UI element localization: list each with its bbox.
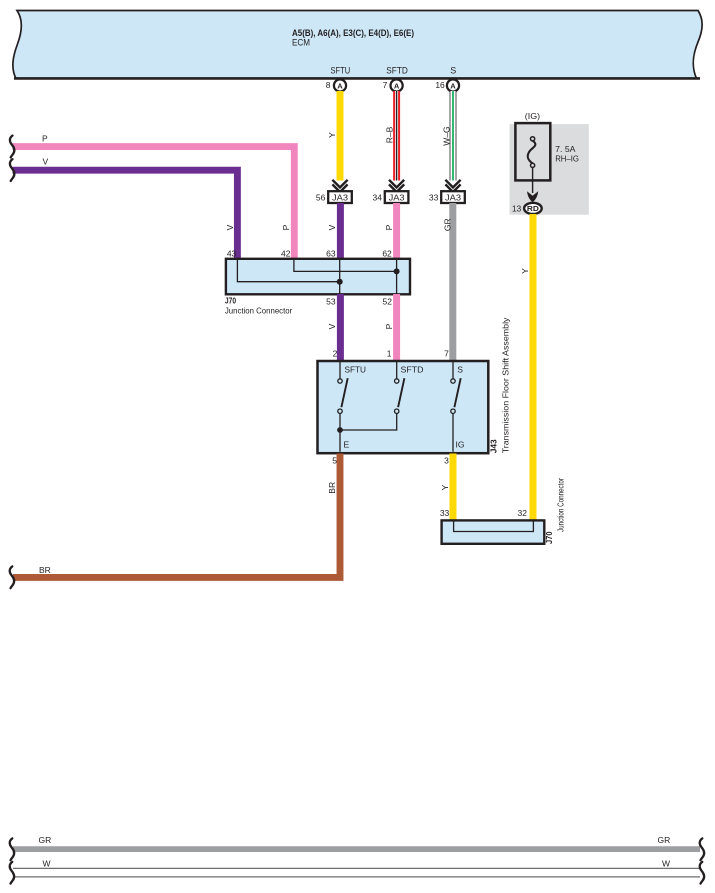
J70 internal line 62-52 [396, 260, 398, 294]
fuse RH-IG block [510, 111, 589, 215]
svg-text:3: 3 [444, 456, 449, 466]
svg-text:GR: GR [442, 218, 452, 231]
break squiggle GR left [10, 838, 14, 860]
arrow into JA3 (33) [445, 180, 460, 192]
svg-text:JA3: JA3 [332, 192, 348, 202]
connector JA3 pin 34 [373, 191, 409, 203]
wire Y from shift assembly IG to J70 pin 33 [440, 454, 453, 522]
J70 internal bus 43 to 53 [237, 260, 342, 285]
svg-text:Transmission Floor Shift Assem: Transmission Floor Shift Assembly [500, 317, 510, 454]
svg-text:P: P [281, 224, 291, 230]
svg-text:33: 33 [429, 192, 439, 202]
svg-text:V: V [43, 156, 49, 166]
svg-text:8: 8 [326, 80, 331, 90]
arrow into JA3 (56) [332, 180, 347, 192]
break squiggle W left [10, 862, 14, 884]
svg-text:42: 42 [281, 248, 291, 258]
svg-text:A5(B), A6(A), E3(C), E4(D), E6: A5(B), A6(A), E3(C), E4(D), E6(E) [292, 28, 414, 38]
wire GR bottom bus [13, 835, 700, 849]
wire V from J70 53 to shift assembly pin 2 [327, 294, 341, 362]
svg-text:32: 32 [518, 508, 528, 518]
wire P from JA3 34 to J70 pin 62 [384, 203, 397, 260]
svg-text:A: A [337, 81, 343, 90]
svg-text:S: S [457, 365, 463, 375]
svg-text:SFTD: SFTD [386, 66, 408, 76]
pin 7 connector A (SFTD) [383, 79, 403, 91]
switch SFTU [338, 362, 348, 413]
svg-text:1: 1 [387, 349, 392, 359]
wire Y from ECM SFTU to JA3 [327, 91, 340, 181]
wire R-B from ECM SFTD to JA3 [384, 91, 396, 181]
wire BR from shift assembly E to left break [13, 454, 340, 578]
wire Y from RD to J70 pin 32 [520, 214, 533, 522]
svg-text:IG: IG [456, 440, 465, 450]
svg-text:A: A [450, 81, 456, 90]
svg-text:JA3: JA3 [389, 192, 405, 202]
svg-text:E: E [344, 440, 350, 450]
connector RD pin 13 [512, 203, 542, 214]
svg-text:P: P [42, 134, 48, 144]
svg-text:V: V [327, 224, 337, 230]
svg-text:BR: BR [327, 482, 337, 494]
J70 label [225, 296, 392, 316]
svg-text:RH–IG: RH–IG [555, 153, 579, 163]
svg-text:62: 62 [382, 248, 392, 258]
svg-text:13: 13 [512, 204, 522, 214]
svg-text:GR: GR [658, 835, 671, 845]
J70 lower internal bus [454, 521, 534, 532]
svg-text:56: 56 [316, 192, 326, 202]
transmission floor shift assembly J43 box [318, 349, 489, 454]
svg-text:52: 52 [383, 297, 393, 307]
junction connector J70 (upper) [226, 248, 410, 294]
svg-text:V: V [225, 224, 235, 230]
svg-text:7: 7 [383, 80, 388, 90]
J70 lower label [544, 478, 566, 544]
svg-text:Junction Connector: Junction Connector [225, 306, 292, 316]
break squiggle BR wire [10, 566, 14, 588]
svg-text:34: 34 [373, 192, 383, 202]
svg-text:53: 53 [326, 297, 336, 307]
svg-text:RD: RD [527, 204, 540, 213]
J70 internal line 63-53 [339, 260, 341, 294]
svg-text:16: 16 [435, 80, 445, 90]
J70 internal bus 42 to 52 [294, 260, 400, 275]
wire GR from JA3 33 to shift assembly pin 7 [442, 203, 453, 362]
wire W-G from ECM S to JA3 [442, 91, 453, 181]
svg-text:J70: J70 [225, 296, 236, 306]
svg-text:5: 5 [332, 456, 337, 466]
svg-text:J43: J43 [489, 439, 499, 453]
svg-text:43: 43 [227, 248, 237, 258]
svg-text:63: 63 [326, 248, 336, 258]
arrow into JA3 (34) [389, 180, 404, 192]
svg-text:V: V [327, 323, 337, 329]
svg-text:Junction Connector: Junction Connector [556, 478, 566, 532]
svg-text:BR: BR [39, 565, 51, 575]
wire P from left break to J70 pin 42 [13, 134, 295, 260]
svg-text:SFTD: SFTD [401, 365, 424, 375]
svg-text:R–B: R–B [384, 126, 394, 143]
svg-text:7: 7 [444, 349, 449, 359]
pin 16 connector A (S) [435, 79, 459, 91]
svg-text:A: A [394, 81, 400, 90]
svg-text:SFTU: SFTU [331, 66, 351, 76]
svg-text:JA3: JA3 [445, 192, 461, 202]
wire P from J70 52 to shift assembly pin 1 [384, 294, 396, 362]
svg-text:J70: J70 [544, 531, 554, 544]
svg-text:S: S [450, 66, 456, 76]
svg-text:Y: Y [520, 268, 530, 274]
svg-text:33: 33 [440, 508, 450, 518]
break squiggle W right [700, 862, 704, 884]
internal wiring SFTU/SFTD to E [337, 413, 397, 451]
fuse output lead and arrow [527, 168, 538, 203]
connector JA3 pin 33 [429, 191, 465, 203]
svg-text:SFTU: SFTU [345, 365, 367, 375]
internal wiring S to IG [453, 413, 464, 451]
break squiggle P wire [10, 136, 14, 158]
svg-text:ECM: ECM [292, 38, 310, 48]
svg-text:W: W [43, 858, 51, 868]
fuse element 7.5A RH-IG [528, 137, 579, 168]
switch S [451, 362, 461, 413]
J43 label [489, 317, 511, 454]
svg-text:P: P [384, 323, 394, 329]
connector JA3 pin 56 [316, 191, 352, 203]
junction connector J70 (lower) [440, 508, 544, 544]
switch SFTD [395, 362, 405, 413]
svg-text:Y: Y [327, 132, 337, 138]
wire V from left break to J70 pin 43 [13, 156, 238, 260]
ECM block A5(B) A6(A) E3(C) E4(D) E6(E) [13, 11, 702, 79]
svg-text:(IG): (IG) [525, 111, 540, 121]
svg-text:Y: Y [440, 484, 450, 490]
wire V from JA3 56 to J70 pin 63 [327, 203, 341, 260]
svg-text:GR: GR [39, 835, 52, 845]
break squiggle V wire [10, 159, 14, 181]
svg-text:2: 2 [333, 349, 338, 359]
break squiggle GR right [700, 838, 704, 860]
pin 8 connector A (SFTU) [326, 79, 346, 91]
svg-text:W: W [662, 858, 670, 868]
svg-text:W–G: W–G [442, 126, 452, 145]
wire W bottom bus [13, 858, 700, 877]
svg-text:P: P [384, 224, 394, 230]
